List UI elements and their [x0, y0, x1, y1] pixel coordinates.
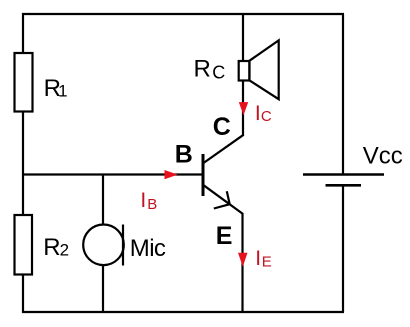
svg-text:C: C: [212, 63, 225, 83]
svg-text:I: I: [255, 247, 261, 270]
svg-text:Mic: Mic: [130, 235, 166, 262]
svg-text:B: B: [147, 196, 157, 213]
svg-text:C: C: [261, 108, 272, 125]
svg-text:1: 1: [58, 82, 67, 101]
svg-text:E: E: [216, 222, 233, 250]
svg-text:I: I: [140, 189, 146, 212]
svg-text:E: E: [262, 254, 272, 271]
svg-text:I: I: [255, 102, 261, 125]
svg-text:B: B: [175, 140, 193, 168]
svg-text:R: R: [43, 234, 60, 261]
svg-text:Vcc: Vcc: [363, 143, 403, 170]
svg-text:C: C: [213, 113, 231, 141]
svg-text:R: R: [194, 56, 211, 83]
svg-text:2: 2: [60, 241, 69, 260]
